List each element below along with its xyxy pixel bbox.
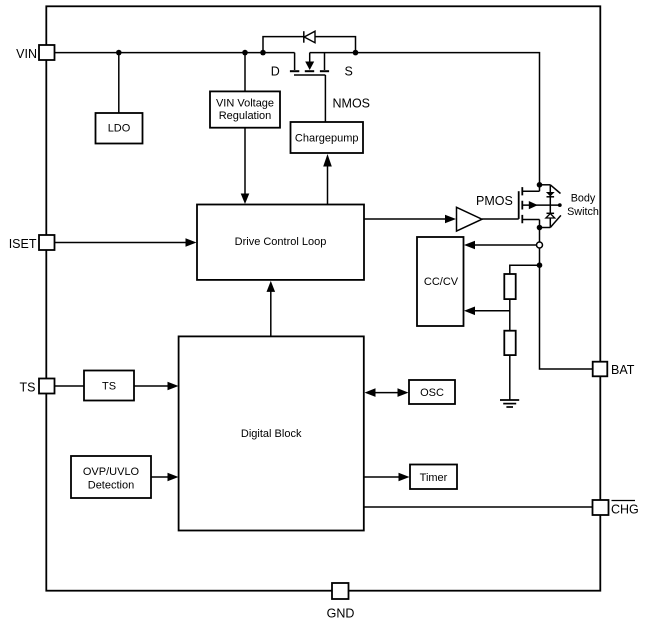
svg-text:CHG: CHG	[611, 502, 639, 516]
svg-text:Body: Body	[571, 193, 596, 205]
wire to resistor divider	[510, 265, 540, 274]
transistor Q2 PMOS	[519, 187, 560, 242]
svg-text:Switch: Switch	[567, 206, 599, 218]
arrow Digital Block to Timer	[364, 476, 399, 478]
wire VIN Voltage Regulation tap	[244, 53, 246, 91]
svg-text:Digital Block: Digital Block	[241, 428, 302, 440]
wire LDO tap	[118, 53, 120, 113]
junction diode right	[353, 50, 359, 56]
arrow VVR to Drive Control Loop	[244, 128, 246, 194]
wire DCL to amplifier	[364, 218, 445, 220]
svg-text:ISET: ISET	[9, 237, 37, 251]
pin TS	[39, 379, 55, 394]
IC boundary	[46, 6, 600, 590]
arrow OVP/UVLO to Digital Block	[151, 476, 168, 478]
wire Digital Block to CHG pin	[364, 506, 593, 508]
resistor R2	[504, 331, 515, 355]
pin CHG	[593, 500, 609, 515]
block Timer	[410, 465, 457, 490]
block Drive Control Loop	[197, 205, 364, 280]
svg-text:Drive Control Loop: Drive Control Loop	[235, 236, 327, 248]
arrow Drive Control Loop to Chargepump	[327, 166, 329, 205]
junction resistor branch	[537, 262, 543, 268]
ground	[500, 400, 519, 407]
diode D1 NMOS bypass	[304, 31, 315, 43]
svg-text:VIN: VIN	[16, 47, 37, 61]
svg-text:Chargepump: Chargepump	[295, 133, 359, 145]
wire TS pin to TS block	[55, 385, 85, 387]
arrow divider tap to CC/CV	[475, 310, 510, 312]
svg-text:Regulation: Regulation	[219, 110, 272, 122]
pin VIN	[39, 45, 55, 60]
wire NMOS gate to Chargepump	[324, 75, 326, 122]
junction diode left	[260, 50, 266, 56]
wire BAT vertical	[540, 248, 593, 369]
svg-text:D: D	[271, 64, 280, 78]
svg-text:OSC: OSC	[420, 387, 444, 399]
svg-text:GND: GND	[327, 607, 355, 621]
arrow node to CC/CV upper	[475, 244, 537, 246]
node charge output circle	[537, 242, 543, 248]
block OSC	[409, 380, 455, 404]
double arrow Digital Block to OSC	[376, 392, 398, 394]
wire VIN rail left segment	[55, 52, 295, 54]
pin GND	[332, 583, 349, 599]
wire VIN rail right segment to PMOS source	[310, 53, 540, 192]
wire R2 to ground	[509, 355, 511, 400]
block TS	[84, 371, 134, 401]
block Chargepump	[291, 122, 364, 153]
svg-text:OVP/UVLO: OVP/UVLO	[83, 466, 140, 478]
svg-text:S: S	[345, 64, 353, 78]
block CC/CV	[417, 237, 464, 326]
block LDO	[96, 113, 143, 144]
arrow ISET to Drive Control Loop	[55, 242, 186, 244]
wire between resistors	[509, 299, 511, 331]
svg-text:TS: TS	[102, 381, 116, 393]
svg-text:Detection: Detection	[88, 480, 134, 492]
pin ISET	[39, 235, 55, 250]
arrow Digital Block to Drive Control Loop	[270, 292, 272, 337]
resistor R1	[504, 274, 515, 299]
svg-text:LDO: LDO	[108, 123, 131, 135]
block Digital Block	[179, 336, 364, 530]
transistor Q1 NMOS	[290, 53, 329, 75]
wire diode bypass branch	[263, 37, 356, 53]
block OVP/UVLO Detection	[71, 456, 151, 498]
svg-text:BAT: BAT	[611, 363, 635, 377]
body switch	[537, 182, 562, 230]
block VIN Voltage Regulation	[210, 91, 280, 127]
svg-text:TS: TS	[20, 381, 36, 395]
junction VVR tap	[242, 50, 248, 56]
wire amp to PMOS gate	[482, 218, 519, 220]
arrow TS block to Digital Block	[134, 385, 168, 387]
svg-text:Timer: Timer	[420, 472, 448, 484]
pin BAT	[593, 362, 608, 377]
svg-text:PMOS: PMOS	[476, 194, 513, 208]
svg-text:CC/CV: CC/CV	[424, 276, 459, 288]
junction LDO tap	[116, 50, 122, 56]
svg-text:NMOS: NMOS	[333, 97, 371, 111]
svg-text:VIN Voltage: VIN Voltage	[216, 97, 274, 109]
op-amp U1 gate driver	[457, 207, 483, 231]
